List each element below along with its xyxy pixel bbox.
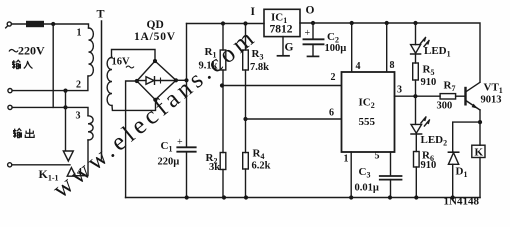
svg-text:9013: 9013 [481,95,502,106]
junction R1 top [221,21,225,25]
resistor R1 [220,50,226,70]
svg-text:T: T [97,7,105,21]
bridge rectifier QD diamond [137,61,176,100]
wire K bottom to ground rail [479,158,481,198]
svg-text:K1-1: K1-1 [39,167,59,183]
terminal: mains input top [7,22,11,26]
ground bar IC1 G [278,55,290,57]
transistor VT1 emitter with arrow [466,101,480,111]
svg-text:100µ: 100µ [325,43,347,54]
resistor R2 [220,153,226,170]
wire 16V top lead to bridge [112,50,156,62]
wire R1 top lead [222,24,224,51]
wire emitter node to D1 [453,122,480,152]
junction emitter node [478,120,482,124]
wire unregulated rail vertical [186,24,188,147]
capacitor C1 plates [177,146,195,148]
junction R3 top [243,21,247,25]
resistor R5 [413,63,419,80]
label 输入 (drawn as paths) [12,60,33,69]
svg-text:555: 555 [359,116,376,128]
wire R5 to pin3 node [415,80,417,96]
wire live drop to output terminal 3 wire [52,24,54,107]
junction bridge left corner [135,79,139,83]
terminal: output bottom [8,163,12,167]
svg-text:3: 3 [397,85,402,96]
wire 555 pin5 to C3 [390,152,392,176]
bridge inner lead right [155,80,176,82]
wire terminal3 [12,106,65,108]
svg-text:6: 6 [329,108,334,119]
diode D1 triangle [448,153,458,165]
svg-text:1N4148: 1N4148 [444,196,480,208]
wire LED2 to R6 [415,134,417,152]
transistor VT1 base bar [464,88,466,104]
wire 555 pin3 output [395,95,441,97]
svg-text:+: + [177,137,183,148]
svg-text:I: I [251,6,256,18]
wire R6 bottom to ground [415,167,417,198]
switch K1-1 moving contact triangle [63,151,73,161]
resistor R4 [243,153,249,170]
resistor R7 [440,94,456,99]
svg-text:3k: 3k [209,162,220,173]
svg-text:R7: R7 [444,80,456,94]
wire 555 pin6 [246,118,342,120]
terminal: mains input bottom [8,89,12,93]
wire 555 pin8 lead [386,23,388,72]
svg-text:O: O [306,5,315,17]
wire pin3 node down to LED2 [415,96,417,124]
svg-text:QD: QD [147,19,164,31]
transformer secondary 16V winding [107,58,112,106]
svg-text:2: 2 [76,80,81,91]
svg-text:LED2: LED2 [421,134,448,148]
junction terminal3 / winding3 [63,105,67,109]
fuse [26,21,44,27]
svg-text:C3: C3 [359,166,371,180]
svg-text:3: 3 [76,111,81,122]
wire R2 bottom [222,170,224,198]
svg-text:LED1: LED1 [424,45,451,59]
svg-text:G: G [285,42,294,54]
wire LED1 to R5 [415,54,417,63]
svg-text:220µ: 220µ [158,157,180,168]
transformer winding 3-4 [88,116,93,140]
wire IC1 output rail [300,23,480,82]
junction R2 ground [222,195,226,199]
junction 555 pin8 top [385,21,389,25]
svg-text:R3: R3 [252,48,264,62]
wire D1 anode to ground [452,164,454,197]
tilde under 16V [126,66,134,68]
resistor R6 [414,152,420,168]
wire winding3 top [66,107,89,115]
wire R4 bottom [245,169,247,198]
transformer core [101,21,103,159]
wire emitter node to relay K [479,122,481,145]
bridge inner diode [146,77,154,85]
op-amp IC1 7812 box [264,9,300,36]
diode D1 cathode bar [448,151,458,153]
switch K1-1 fixed contact triangle [67,168,76,177]
junction LED1 top rail [413,21,417,25]
wire terminal4 to contact K1-1 [12,164,70,166]
svg-text:C1: C1 [161,140,173,154]
LED1 [411,45,421,54]
capacitor C2 plates [304,38,324,40]
junction bridge plus [184,78,188,82]
junction C3 ground [388,195,392,199]
svg-text:2: 2 [331,72,336,83]
junction R6 ground [414,195,418,199]
terminal: output top [8,105,12,109]
wire 16V bottom lead to bridge [112,100,156,111]
svg-text:6.2k: 6.2k [252,161,271,172]
junction R4 ground [244,195,248,199]
wire R3-R4 link [245,70,247,153]
junction pin3 node [413,94,417,98]
bridge inner lead left [138,80,146,82]
svg-text:910: 910 [421,160,437,171]
wire to switch moving contact [65,91,67,151]
svg-text:VT1: VT1 [484,82,503,96]
wire R7 to base [456,95,465,97]
junction R1 R2 pin2 [220,83,224,87]
svg-text:1: 1 [77,28,82,39]
wire fuse to transformer winding 1 [44,24,89,28]
transistor VT1 collector [466,82,480,92]
svg-text:R4: R4 [253,148,265,162]
wire bridge minus to ground rail [126,81,137,198]
label 输出 (drawn as paths) [13,129,34,138]
LED2 [411,124,422,133]
wire R1-R2 link [222,70,224,153]
junction D1 ground [451,195,455,199]
wire top rail to IC1 input [187,23,265,25]
wire terminal1 to fuse [11,23,26,25]
svg-text:910: 910 [421,77,437,88]
wire C2 bottom lead [312,44,314,56]
svg-text:5: 5 [375,151,380,162]
svg-text:4: 4 [356,61,361,72]
wire LED1 top lead [415,23,417,45]
bridge plus mark [158,78,163,83]
wire IC1 G lead [282,37,284,56]
wire 555 pin1 to ground [350,152,352,198]
junction pin1 ground [349,195,353,199]
junction bridge right corner [174,78,178,82]
wire terminal2 to winding 2 [12,76,88,91]
junction terminal2 wire [63,89,67,93]
tilde of ~220V [9,50,18,52]
svg-text:1: 1 [344,154,349,165]
svg-text:9.1k: 9.1k [199,61,218,72]
svg-text:+: + [305,28,311,39]
relay K box [472,145,485,157]
svg-text:4: 4 [77,167,82,178]
junction fuse output [51,22,55,26]
wire emitter down [479,110,481,122]
wire C1 bottom to rail [186,152,188,198]
wire C2 top lead [312,23,314,39]
transformer T primary winding 1-2 [89,28,94,76]
timer IC2 555 box [342,72,395,152]
svg-text:8: 8 [390,60,395,71]
junction 555 pin4 top [350,21,354,25]
watermark www.elecfans.com [48,23,262,204]
svg-text:0.01µ: 0.01µ [355,183,379,194]
svg-text:300: 300 [437,101,453,112]
junction bridge bottom corner [153,98,157,102]
junction C1 ground [185,195,189,199]
resistor R3 [243,50,249,70]
junction bridge top corner [153,59,157,63]
svg-text:7.8k: 7.8k [250,62,269,73]
wire R3 top lead [245,24,247,51]
svg-text:D1: D1 [456,166,468,180]
junction R3 R4 pin6 [243,117,247,121]
junction C2 top [311,21,315,25]
svg-text:7812: 7812 [270,24,293,36]
LED2 arrows [421,117,430,126]
svg-text:K: K [475,147,484,159]
LED1 arrows [421,38,430,47]
svg-text:1A/50V: 1A/50V [134,31,176,43]
capacitor C3 plates [380,175,402,177]
svg-text:220V: 220V [18,44,45,58]
ground bar C2 [308,55,319,57]
wire C3 bottom [390,180,392,198]
wire 555 pin4 lead [351,23,353,72]
svg-text:R5: R5 [423,64,435,78]
ground rail [126,197,480,199]
wire 555 pin2 [223,85,342,87]
wire winding4 to fixed contact [76,140,89,176]
wire bridge plus output [176,79,187,81]
